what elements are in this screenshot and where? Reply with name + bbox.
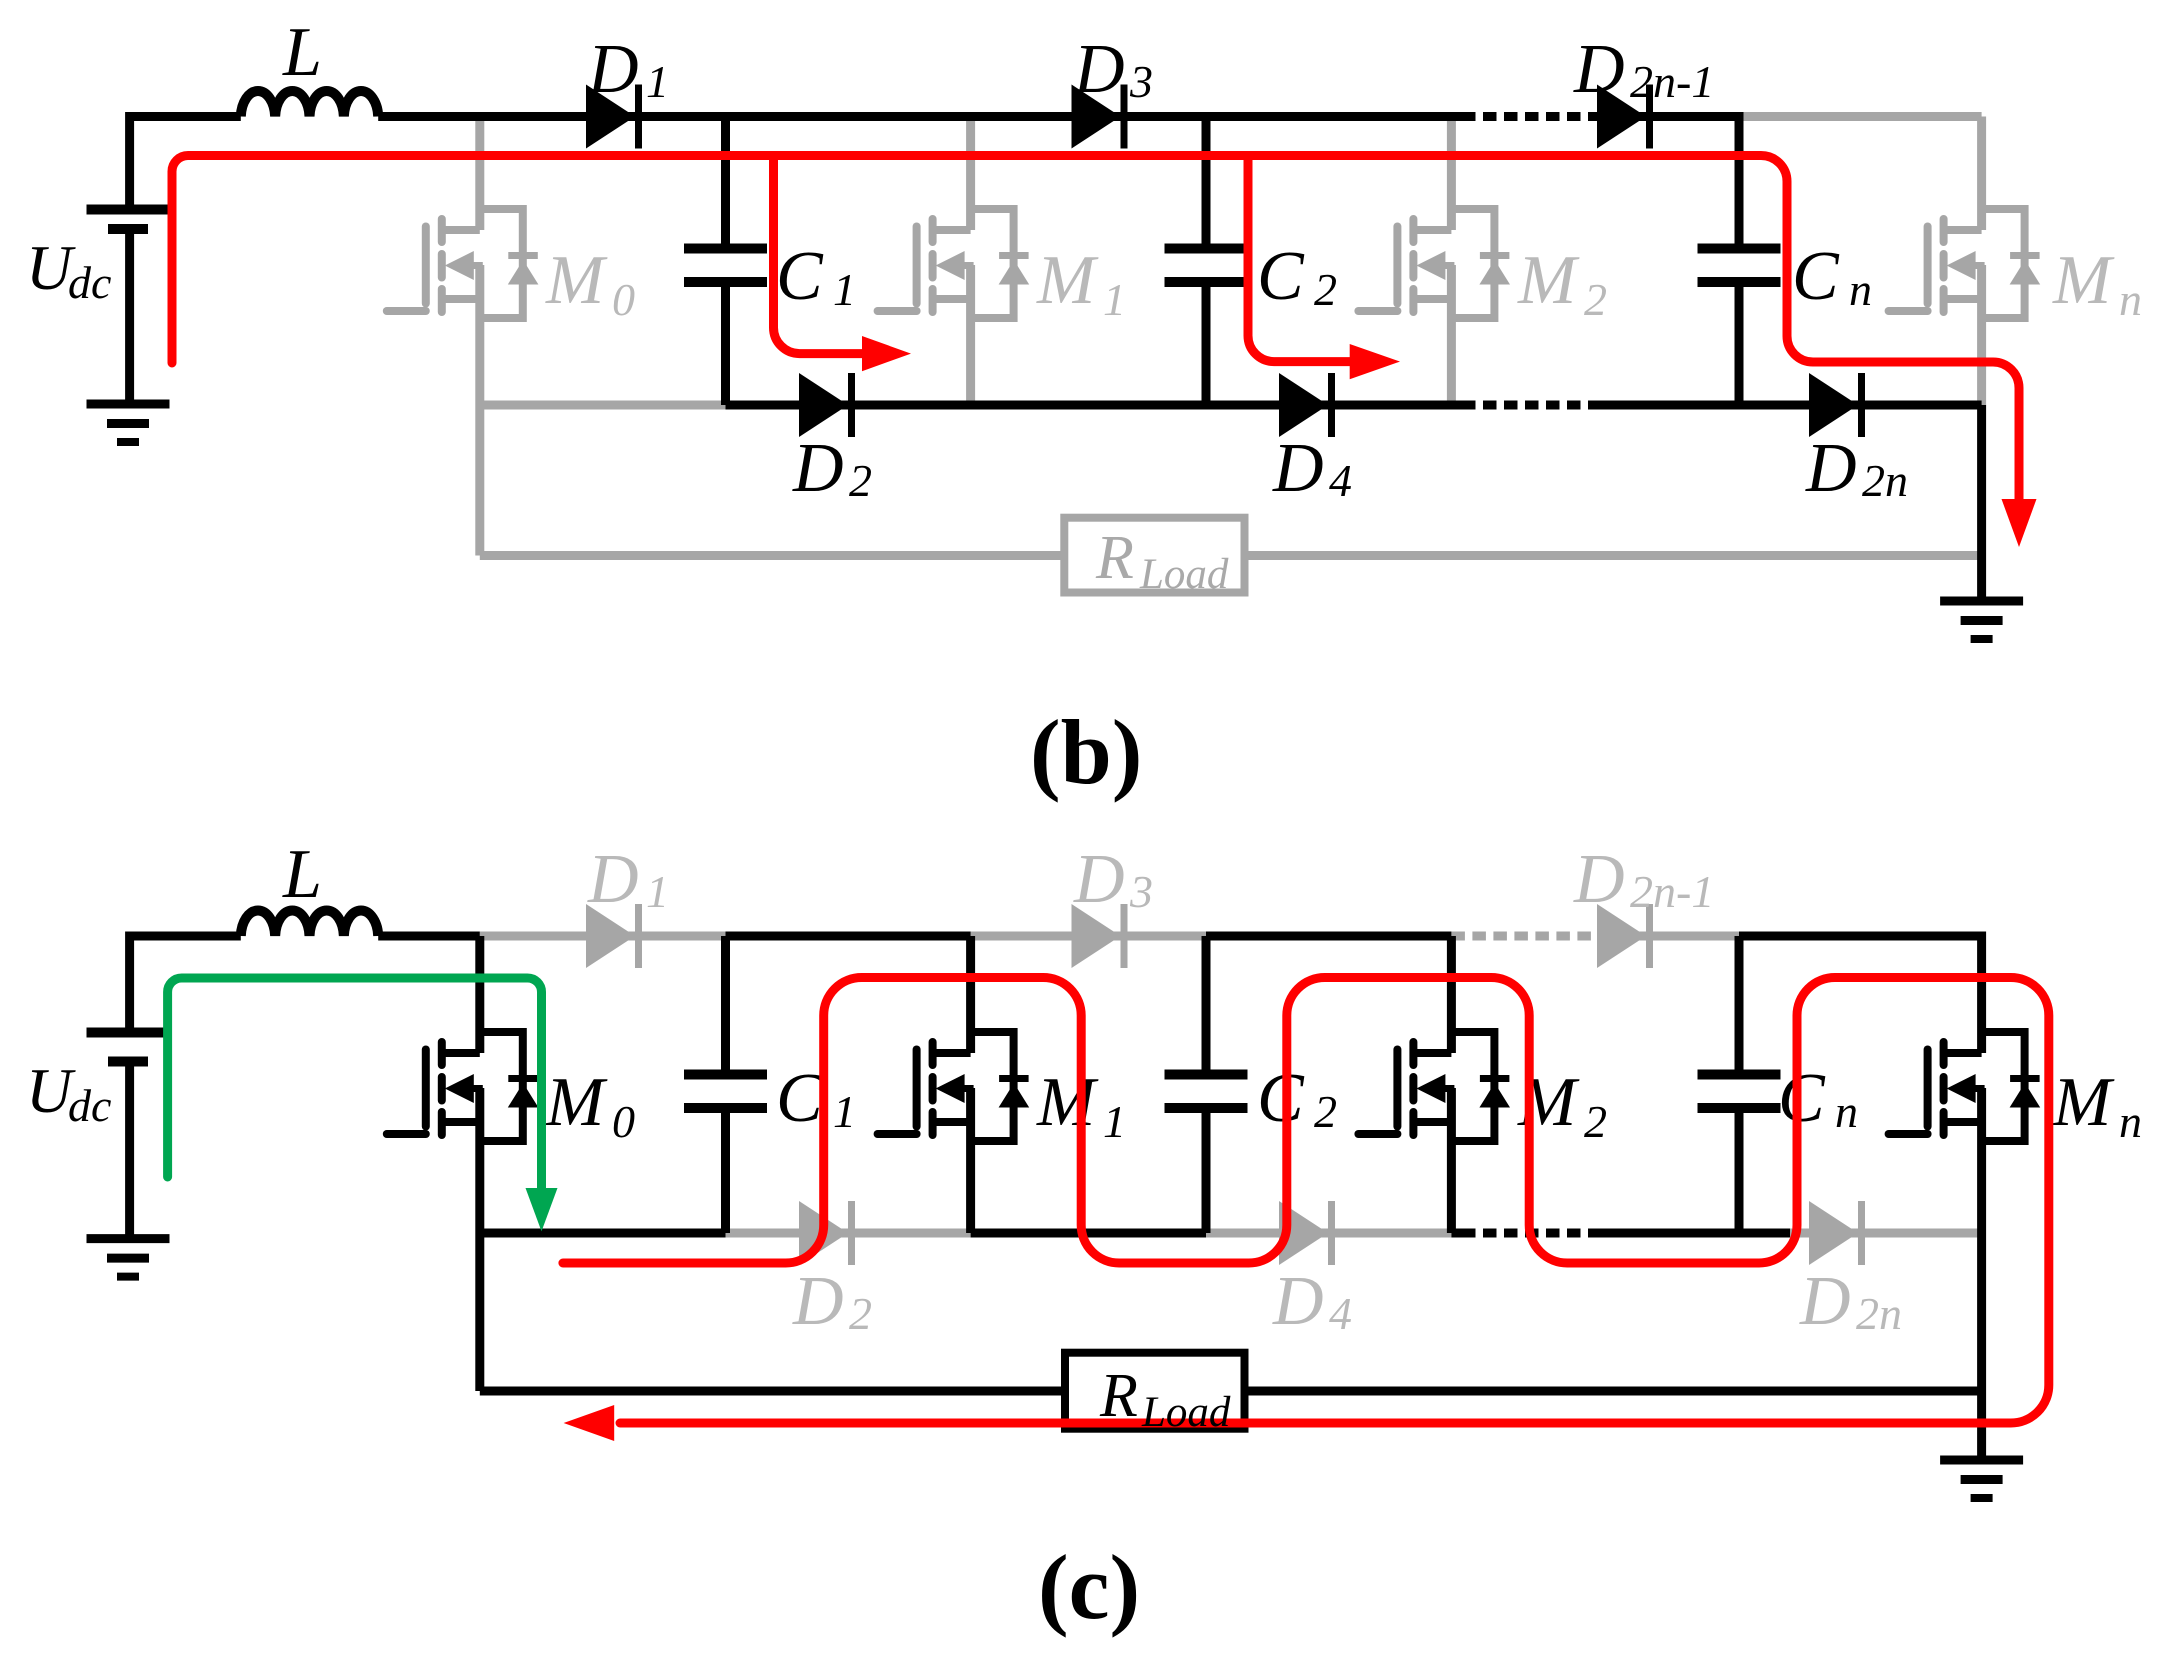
top rail after D2n-1 with corner down to Cn (fig b) [1597,117,1739,249]
diode D2n (fig b) [1809,373,1862,437]
svg-text:2n-1: 2n-1 [1630,866,1714,917]
capacitor C2 (fig c) [1165,1075,1248,1109]
capacitor Cn (fig c) [1698,1075,1781,1109]
capacitor Cn lower lead (fig b) [1735,282,1744,405]
svg-text:M: M [2052,242,2115,319]
red current path from source through L, D1..D2n-1 to output (fig b) [172,156,2019,506]
source lead Mn down to load rail (fig c) [1977,1088,1986,1391]
top rail dashed section (fig b) [1462,112,1597,121]
top rail C2 to M2 (fig c, black) [1206,932,1451,941]
transistor M1 (on, black) [878,1032,1030,1141]
capacitor C1 leads (fig c) [721,936,730,1233]
diode D2n-1 (fig b) [1597,85,1650,149]
svg-text:2n-1: 2n-1 [1630,56,1714,107]
svg-text:(b): (b) [1030,701,1142,803]
svg-text:1: 1 [646,866,669,917]
svg-text:C: C [1257,238,1305,315]
svg-text:M: M [545,242,608,319]
transistor M1 (off, gray) [878,209,1030,318]
bottom diode rail solid left part (fig b) [726,401,1463,410]
gray source lead Mn (fig b) [1977,265,1986,405]
svg-text:D: D [792,430,844,507]
svg-text:D: D [587,841,639,918]
source lead M0 down to load rail (fig c) [475,1088,484,1391]
gray top rail D2n-1 to Cn (fig c) [1597,932,1739,941]
svg-text:n: n [1835,1086,1858,1137]
svg-text:n: n [1849,264,1872,315]
inductor L (fig b) [241,91,378,117]
capacitor Cn (fig b) [1698,249,1781,283]
bottom diode rail to Cn (fig c, black) [1597,1229,1790,1238]
load return rail (fig c, black) [480,1387,1982,1396]
svg-text:D: D [1272,430,1324,507]
svg-text:Load: Load [1141,1389,1231,1436]
diode D1 (fig b) [586,85,639,149]
svg-text:Load: Load [1139,551,1229,598]
top rail (fig b, black) [130,117,1462,210]
svg-text:dc: dc [68,1080,111,1131]
svg-text:0: 0 [612,274,635,325]
svg-text:1: 1 [833,264,856,315]
gray source lead M1 (fig b) [966,265,975,405]
svg-text:1: 1 [1103,1096,1126,1147]
gray drain lead M0 (fig b) [475,117,484,231]
svg-text:M: M [1036,1064,1099,1141]
svg-text:4: 4 [1329,1288,1352,1339]
gray diode D2 (fig c) [799,1201,852,1265]
gray diode D2n-1 (fig c) [1597,904,1650,968]
svg-text:L: L [282,14,322,91]
svg-text:0: 0 [612,1096,635,1147]
capacitor C2 leads (fig c) [1202,936,1211,1233]
bottom diode rail M1 to C2 (fig c, black) [971,1229,1206,1238]
capacitor C1 (fig b) [684,249,767,283]
capacitor C2 leads (fig b) [1202,117,1211,406]
source lead M2 (fig c) [1447,1088,1456,1233]
resistor R_Load box (fig c, black) [1065,1353,1245,1429]
svg-text:M: M [545,1064,608,1141]
transistor Mn (on, black) [1889,1032,2041,1141]
gray source lead of M0 down to load rail (fig b) [475,265,484,556]
gray top rail M1 to C2 (fig c) [971,932,1206,941]
red current path weaving through C1,M1,C2,M2,Cn,Mn (fig c) [563,978,2049,1424]
red arrowhead right at C2 branch (fig b) [1350,344,1400,379]
svg-text:2: 2 [1314,1086,1337,1137]
svg-text:R: R [1095,524,1134,592]
capacitor Cn leads (fig c) [1735,936,1744,1233]
ground below battery (fig c) [87,1239,170,1277]
gray bottom rail C2 to M2 (fig c) [1206,1229,1451,1238]
gray top rail dashed M2 toward D2n-1 (fig c) [1451,932,1597,941]
transistor M0 (on, black) [387,1032,539,1141]
svg-text:4: 4 [1329,455,1352,506]
battery U_dc (fig b) [87,205,169,215]
top rail Cn to Mn with corner (fig c, black) [1739,936,1982,1053]
gray drain lead Mn (fig b) [1977,117,1986,231]
svg-text:2: 2 [1584,1096,1607,1147]
gray diode D3 (fig c) [1072,904,1125,968]
svg-text:C: C [776,1060,824,1137]
red arrowhead right at C1 branch (fig b) [862,336,911,371]
svg-text:D: D [587,31,639,108]
battery U_dc (fig c) [87,1028,169,1038]
red branch arrow into C2 (fig b) [1248,160,1351,362]
source lead M1 (fig c) [966,1088,975,1233]
svg-text:M: M [1036,242,1099,319]
gray drain lead M2 (fig b) [1447,117,1456,231]
svg-text:1: 1 [1103,274,1126,325]
drain lead M2 (fig c) [1447,936,1456,1053]
gray bottom rail Cn to Mn (fig c) [1790,1229,1982,1238]
diode D3 (fig b) [1072,85,1125,149]
bottom diode rail M0 to C1 (fig c, black) [480,1229,726,1238]
svg-text:D: D [1272,1263,1324,1340]
svg-text:C: C [1778,1060,1826,1137]
diode D2 (fig b) [799,373,852,437]
svg-text:C: C [776,238,824,315]
gray top rail from Cn corner to Mn (fig b) [1739,112,1982,121]
svg-text:L: L [282,836,322,913]
ground below battery (fig b) [87,404,170,442]
svg-text:(c): (c) [1038,1536,1140,1638]
inductor L (fig c) [241,910,378,936]
output node vertical wire (fig b) [1977,405,1986,601]
drain lead M0 (fig c) [475,936,484,1053]
gray top rail M0 to C1 (fig c) [480,932,726,941]
bottom diode rail M2 dashed (fig c, black) [1451,1229,1462,1238]
svg-text:R: R [1099,1362,1138,1430]
gray bottom rail C1 to M1 (fig c) [726,1229,971,1238]
gray diode D1 (fig c) [586,904,639,968]
drain lead M1 (fig c) [966,936,975,1053]
resistor R_Load box (fig b, gray) [1064,518,1244,593]
svg-text:2: 2 [1314,264,1337,315]
gray bottom rail from M0 to C1 (fig b) [480,401,726,410]
ground stub at output (fig c) [1977,1391,1986,1458]
svg-text:M: M [2052,1064,2115,1141]
gray drain lead M1 (fig b) [966,117,975,231]
svg-text:dc: dc [68,257,111,308]
svg-text:2: 2 [1584,274,1607,325]
svg-text:D: D [1073,841,1125,918]
transistor M2 (on, black) [1358,1032,1510,1141]
svg-text:D: D [1805,430,1857,507]
red arrowhead left on return path (fig c) [564,1405,615,1441]
transistor M2 (off, gray) [1358,209,1510,318]
svg-text:C: C [1257,1060,1305,1137]
svg-text:C: C [1792,238,1840,315]
svg-text:3: 3 [1129,866,1153,917]
red branch arrow into C1 (fig b) [774,160,865,354]
gray diode D2n (fig c) [1809,1201,1862,1265]
svg-text:1: 1 [833,1086,856,1137]
svg-text:2n: 2n [1856,1288,1902,1339]
svg-text:n: n [2119,1096,2142,1147]
svg-text:2n: 2n [1862,455,1908,506]
green arrowhead down at M0 source (fig c) [526,1188,558,1231]
svg-text:D: D [1573,841,1625,918]
svg-text:2: 2 [849,1288,872,1339]
svg-text:3: 3 [1129,56,1153,107]
diode D4 (fig b) [1279,373,1332,437]
ground at output (fig b) [1940,601,2023,639]
capacitor C2 (fig b) [1165,249,1248,283]
transistor M0 (off, gray) [387,209,539,318]
svg-text:1: 1 [646,56,669,107]
capacitor C1 leads (fig b) [721,117,730,406]
transistor Mn (off, gray) [1889,209,2041,318]
svg-text:2: 2 [849,455,872,506]
svg-text:D: D [792,1263,844,1340]
svg-text:n: n [2119,274,2142,325]
svg-text:D: D [1073,31,1125,108]
gray source lead M2 (fig b) [1447,265,1456,405]
top rail battery to M0 (fig c, black) [130,936,480,1032]
gray load rail (fig b) [480,551,1982,560]
svg-text:D: D [1573,31,1625,108]
top rail C1 to M1 (fig c, black) [726,932,971,941]
svg-text:M: M [1517,242,1580,319]
svg-text:D: D [1799,1263,1851,1340]
ground at output (fig c) [1940,1460,2023,1498]
green current path through M0 (fig c) [168,978,542,1192]
capacitor C1 (fig c) [684,1075,767,1109]
bottom diode rail right part (fig b) [1597,401,1982,410]
red arrowhead down at output (fig b) [2002,499,2037,547]
gray diode D4 (fig c) [1279,1201,1332,1265]
bottom diode rail dashed section (fig b) [1462,401,1597,410]
